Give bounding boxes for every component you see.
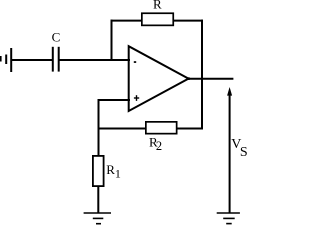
wire source to capacitor [11,59,52,61]
svg-text:2: 2 [156,139,162,153]
wire R1 to ground [97,187,99,213]
svg-text:R: R [153,0,162,12]
svg-text:C: C [52,30,61,45]
wire feedback vertical down to output and R2 [201,20,203,130]
wire top feedback left segment [111,20,142,22]
wire output [189,78,234,80]
op-amp U1 [129,46,189,111]
capacitor C [53,47,59,72]
resistor R [142,13,173,25]
pin plus (non-inverting input mark) [134,95,139,101]
ground (right, below VS line) [217,213,240,224]
wire non-inverting input [98,99,131,101]
ground (left, below R1) [84,213,111,224]
svg-text:S: S [240,145,247,160]
wire R2 right segment [178,128,203,130]
node output junction [187,77,190,80]
wire feedback tap up from inverting input [111,20,113,60]
resistor R1 [93,156,104,186]
wire R2 left segment [99,128,146,130]
wire non-inverting node vertical down to R1 [98,99,100,156]
wire capacitor to inverting input [59,59,130,61]
voltage source VE (battery cells, clipped at left image edge) [1,48,12,72]
wire top feedback right segment [174,20,203,22]
resistor R2 [146,122,177,134]
arrow head of VS measurement arrow [227,87,232,96]
wire VS measurement line [229,92,231,213]
pin minus (inverting input mark) [134,61,136,63]
svg-text:1: 1 [115,166,121,180]
